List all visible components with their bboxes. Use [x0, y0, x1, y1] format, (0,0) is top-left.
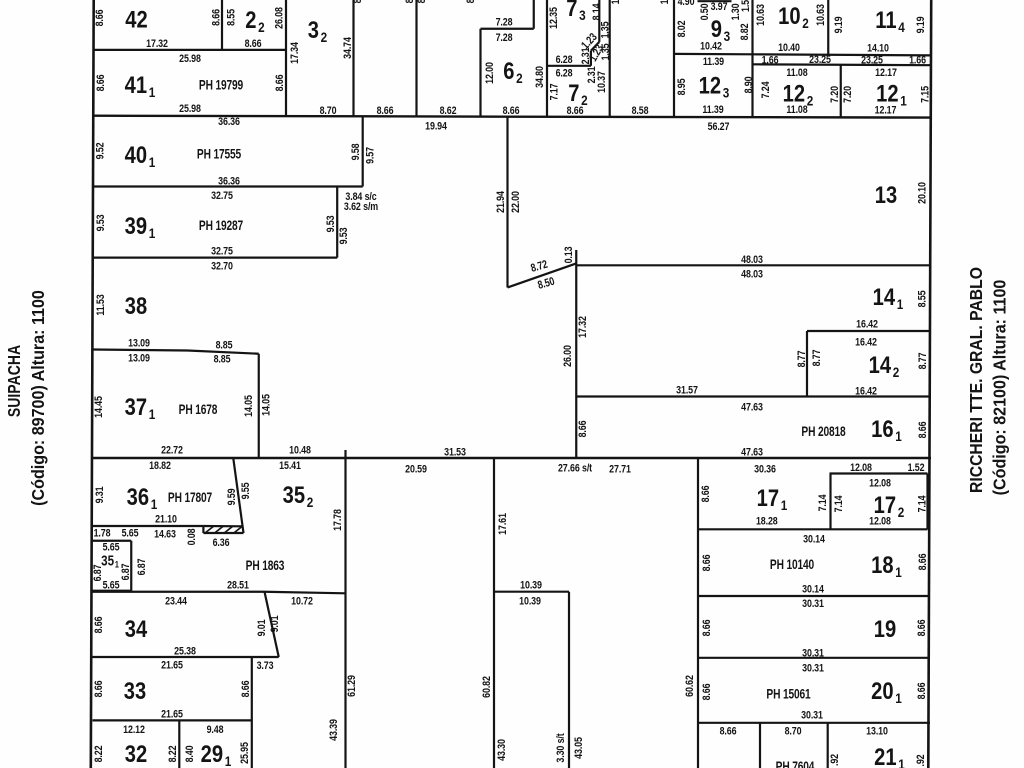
svg-text:56.27: 56.27	[708, 121, 730, 133]
svg-text:38: 38	[125, 292, 147, 319]
svg-text:1.35: 1.35	[599, 21, 611, 38]
svg-text:7.15: 7.15	[919, 86, 931, 103]
svg-text:9.53: 9.53	[338, 227, 350, 244]
svg-text:(Código: 89700) Altura: 1100: (Código: 89700) Altura: 1100	[28, 290, 48, 506]
svg-text:8.66: 8.66	[377, 105, 394, 117]
svg-text:0.13: 0.13	[563, 246, 575, 263]
svg-text:3.30 s/t: 3.30 s/t	[555, 733, 567, 763]
svg-text:21.65: 21.65	[161, 660, 183, 672]
svg-text:12.35: 12.35	[548, 7, 560, 29]
svg-text:8.66: 8.66	[917, 553, 929, 570]
svg-text:22.72: 22.72	[161, 445, 183, 457]
svg-text:8.66: 8.66	[274, 74, 286, 91]
wire: 7.28 notch horizontal	[481, 28, 534, 30]
svg-text:4.90: 4.90	[678, 0, 695, 8]
svg-text:20.10: 20.10	[916, 182, 928, 204]
svg-text:0.08: 0.08	[186, 528, 198, 545]
svg-text:PH 20818: PH 20818	[801, 424, 846, 440]
wire: lot 37 right edge	[258, 354, 260, 458]
svg-text:8.66: 8.66	[240, 680, 252, 697]
svg-text:8.90: 8.90	[743, 76, 755, 93]
svg-text:7.14: 7.14	[817, 494, 829, 511]
svg-text:10.72: 10.72	[291, 596, 313, 608]
svg-text:6.87: 6.87	[120, 563, 132, 580]
svg-text:8.66: 8.66	[503, 105, 520, 117]
svg-text:8.22: 8.22	[167, 745, 179, 762]
svg-text:9.01: 9.01	[256, 619, 268, 636]
svg-text:14.05: 14.05	[260, 394, 272, 416]
wire: bottom of PH1863 left part	[93, 591, 265, 593]
svg-text:60.82: 60.82	[481, 676, 493, 698]
wire: bottom of lot 36	[93, 525, 204, 527]
svg-text:1.40: 1.40	[610, 0, 622, 4]
svg-text:10.42: 10.42	[700, 41, 722, 53]
svg-text:7.17: 7.17	[548, 83, 560, 100]
wire: lot 21 divider x760	[759, 723, 761, 768]
svg-text:8.66: 8.66	[577, 420, 589, 437]
svg-text:17.61: 17.61	[497, 513, 509, 535]
svg-text:30.31: 30.31	[802, 598, 824, 610]
wire: lot 17-2 box right	[926, 474, 928, 530]
svg-text:9.01: 9.01	[269, 615, 281, 632]
wire: lot 35-1 right	[130, 541, 132, 591]
wire: lot 9-3 left edge	[673, 0, 675, 117]
svg-text:60.62: 60.62	[684, 675, 696, 697]
svg-text:26.00: 26.00	[562, 345, 574, 367]
svg-text:14.05: 14.05	[243, 395, 255, 417]
svg-text:25.95: 25.95	[239, 742, 251, 764]
svg-text:6.87: 6.87	[136, 558, 148, 575]
svg-text:13.09: 13.09	[128, 353, 150, 365]
svg-text:1.40: 1.40	[659, 0, 671, 4]
wire: bottom of 20 row	[698, 722, 930, 724]
svg-text:14.63: 14.63	[154, 529, 176, 541]
svg-text:30.31: 30.31	[802, 648, 824, 660]
wire: main divider y116	[93, 116, 932, 118]
svg-text:43.30: 43.30	[496, 739, 508, 761]
wire: vertical x576 (17.32/26.00)	[575, 265, 577, 458]
svg-text:12.17: 12.17	[875, 67, 897, 79]
svg-text:32.75: 32.75	[211, 190, 233, 202]
svg-text:9.55: 9.55	[240, 482, 252, 499]
svg-text:8.66: 8.66	[567, 105, 584, 117]
svg-text:18.82: 18.82	[149, 460, 171, 472]
svg-text:12.08: 12.08	[869, 516, 891, 528]
svg-text:PH 1678: PH 1678	[179, 402, 218, 418]
svg-text:47.63: 47.63	[741, 402, 763, 414]
svg-text:14.10: 14.10	[867, 43, 889, 55]
svg-text:7.28: 7.28	[496, 32, 513, 44]
svg-text:16.42: 16.42	[855, 337, 877, 349]
svg-text:RICCHERI TTE. GRAL. PABLO: RICCHERI TTE. GRAL. PABLO	[966, 267, 986, 493]
wire: bottom of lot 38 seg 8.85	[188, 351, 259, 354]
svg-text:8.66: 8.66	[700, 485, 712, 502]
wire: lot 12-1 left edge	[840, 65, 842, 118]
svg-text:5.65: 5.65	[103, 580, 120, 592]
wire: top of lot 16-1 (31.57/16.42)	[576, 395, 931, 397]
wire: lot 17-2 box left	[829, 474, 831, 530]
svg-text:21.10: 21.10	[155, 514, 177, 526]
svg-text:8.66: 8.66	[701, 683, 713, 700]
svg-text:17.32: 17.32	[577, 316, 589, 338]
svg-text:9.53: 9.53	[325, 215, 337, 232]
svg-text:12.08: 12.08	[869, 478, 891, 490]
svg-text:11.53: 11.53	[95, 294, 107, 316]
wire: lot 39 right edge	[336, 187, 338, 258]
svg-text:8.66: 8.66	[94, 9, 106, 26]
svg-text:8.66: 8.66	[701, 619, 713, 636]
svg-text:8.55: 8.55	[225, 9, 237, 26]
svg-text:12.17: 12.17	[875, 105, 897, 117]
svg-text:8.77: 8.77	[796, 350, 808, 367]
wire: long vertical x494	[493, 458, 495, 768]
wire: diagonal 8.50/8.72	[508, 263, 577, 287]
svg-text:14.45: 14.45	[93, 396, 105, 418]
svg-text:7.28: 7.28	[496, 17, 513, 29]
svg-text:7.14: 7.14	[916, 495, 928, 512]
svg-text:8.66: 8.66	[352, 0, 364, 3]
wire: lot 35-1 bottom	[93, 590, 132, 592]
svg-text:16.42: 16.42	[856, 319, 878, 331]
svg-text:27.71: 27.71	[609, 464, 631, 476]
svg-text:47.63: 47.63	[741, 447, 763, 459]
svg-text:9.48: 9.48	[207, 724, 224, 736]
svg-text:8.66: 8.66	[720, 726, 737, 738]
svg-text:31.57: 31.57	[676, 385, 698, 397]
wire: lot 7-3 right edge	[598, 0, 600, 42]
svg-text:8.66: 8.66	[245, 38, 262, 50]
svg-text:10.63: 10.63	[815, 4, 827, 26]
wire: boundary SUIPACHA street line	[91, 0, 94, 768]
svg-text:17.78: 17.78	[332, 509, 344, 531]
wire: lot 21 divider x827	[827, 723, 829, 768]
wire: lot 6-2 right edge	[546, 0, 548, 117]
svg-text:11.39: 11.39	[702, 104, 724, 116]
wire: tall lot left edge x609	[609, 0, 611, 117]
svg-text:7.20: 7.20	[829, 86, 841, 103]
svg-text:9.31: 9.31	[94, 486, 106, 503]
svg-text:8.85: 8.85	[216, 340, 233, 352]
svg-text:8.22: 8.22	[93, 745, 105, 762]
svg-text:27.66 s/t: 27.66 s/t	[558, 463, 593, 475]
svg-text:PH 19287: PH 19287	[199, 218, 244, 234]
wire: lot 35-1 top	[93, 540, 132, 542]
svg-text:34: 34	[125, 615, 148, 642]
svg-text:32: 32	[125, 740, 147, 767]
svg-text:6.28: 6.28	[556, 54, 573, 66]
svg-text:9.59: 9.59	[226, 488, 238, 505]
wire: main divider y458	[93, 457, 932, 459]
svg-text:9.19: 9.19	[915, 16, 927, 33]
svg-text:1.78: 1.78	[94, 528, 111, 540]
svg-text:PH 15061: PH 15061	[766, 686, 811, 702]
svg-text:11.08: 11.08	[786, 67, 808, 79]
wire: notch at top of 9-3	[698, 0, 732, 2]
svg-text:8.55: 8.55	[916, 290, 928, 307]
svg-text:30.14: 30.14	[802, 584, 824, 596]
wire: bottom of lot 39	[93, 257, 338, 259]
wire: bottom of lot 9-3	[674, 53, 753, 56]
wire: column divider x416	[415, 0, 417, 116]
wire: top of lot 17-2 box	[830, 472, 928, 474]
svg-text:1.66: 1.66	[762, 55, 779, 67]
svg-text:11.08: 11.08	[786, 104, 808, 116]
svg-text:3.97: 3.97	[711, 1, 728, 13]
svg-text:10.37: 10.37	[596, 71, 608, 93]
svg-text:12.00: 12.00	[484, 62, 496, 84]
wire: lot 3-2 right edge	[352, 0, 354, 116]
svg-text:32.70: 32.70	[211, 261, 233, 273]
wire: bottom of lot 34	[93, 656, 279, 658]
svg-text:36.36: 36.36	[218, 116, 240, 128]
svg-text:8.14: 8.14	[591, 3, 603, 20]
svg-text:36.36: 36.36	[218, 176, 240, 188]
svg-text:43.39: 43.39	[328, 719, 340, 741]
wire: lot 36 slanted right edge	[233, 458, 243, 533]
svg-text:30.31: 30.31	[802, 663, 824, 675]
svg-text:9.52: 9.52	[94, 142, 106, 159]
svg-text:25.98: 25.98	[179, 103, 201, 115]
svg-text:5.65: 5.65	[122, 528, 139, 540]
wire: tick above x345	[344, 450, 346, 458]
svg-text:34.74: 34.74	[342, 37, 354, 59]
svg-text:8.66: 8.66	[701, 554, 713, 571]
svg-text:10.39: 10.39	[519, 596, 541, 608]
svg-text:21.65: 21.65	[161, 709, 183, 721]
svg-text:32.75: 32.75	[211, 246, 233, 258]
svg-text:8.66: 8.66	[465, 0, 477, 3]
svg-text:PH 10140: PH 10140	[770, 557, 815, 573]
wire: lot 42 right edge	[221, 0, 223, 50]
svg-text:8.70: 8.70	[320, 105, 337, 117]
wire: 10.39 line	[494, 591, 569, 593]
svg-text:10.63: 10.63	[755, 4, 767, 26]
svg-text:21.94: 21.94	[495, 191, 507, 213]
svg-text:8.70: 8.70	[785, 726, 802, 738]
svg-text:19: 19	[874, 615, 896, 642]
svg-text:11.39: 11.39	[703, 56, 725, 68]
svg-text:18.28: 18.28	[756, 516, 778, 528]
wire: 16.42 top of lot 14-2	[807, 330, 931, 332]
wire: lot 2-2 right edge	[285, 0, 287, 116]
svg-text:43.05: 43.05	[573, 737, 585, 759]
wire: bottom of PH1863 right part 10.72	[265, 592, 346, 594]
svg-text:8.02: 8.02	[676, 20, 688, 37]
svg-text:17.32: 17.32	[146, 38, 168, 50]
svg-text:PH 7604: PH 7604	[776, 759, 815, 768]
svg-text:9.57: 9.57	[364, 147, 376, 164]
wire: bottom of lot 40	[93, 185, 363, 187]
svg-text:SUIPACHA: SUIPACHA	[4, 345, 24, 418]
wire: lot 9-3 right edge	[751, 0, 753, 117]
svg-text:31.53: 31.53	[444, 447, 466, 459]
svg-text:61.29: 61.29	[346, 675, 358, 697]
svg-text:8.66: 8.66	[210, 9, 222, 26]
svg-text:8.40: 8.40	[184, 745, 196, 762]
svg-text:30.31: 30.31	[801, 710, 823, 722]
wire: sliver bottom	[203, 532, 243, 534]
svg-text:PH 19799: PH 19799	[199, 77, 244, 93]
wire: lot 33/29-1 right edge	[251, 657, 253, 768]
wire: bottom of 17 row	[698, 528, 928, 530]
wire: bottom of 19 row	[698, 657, 930, 659]
svg-text:8.62: 8.62	[440, 105, 457, 117]
svg-text:13.09: 13.09	[128, 338, 150, 350]
wire: 48.03 bottom of lot 13	[576, 264, 931, 266]
svg-text:8.66: 8.66	[916, 682, 928, 699]
svg-text:34.80: 34.80	[534, 66, 546, 88]
svg-text:48.03: 48.03	[741, 269, 763, 281]
wire: long vertical x345	[344, 458, 346, 768]
svg-text:17.34: 17.34	[289, 42, 301, 64]
wire: bottom of 18 row	[698, 595, 930, 597]
svg-text:.92: .92	[829, 754, 841, 766]
wire: bottom of lot 38 seg 13.09	[93, 350, 188, 351]
svg-text:9.58: 9.58	[350, 143, 362, 160]
svg-text:.92: .92	[915, 754, 927, 766]
svg-text:0.50: 0.50	[699, 3, 711, 20]
svg-text:PH 1863: PH 1863	[246, 558, 285, 574]
wire: top of lots 12-2 / 12-1	[753, 63, 932, 66]
svg-text:13: 13	[875, 181, 897, 208]
svg-text:42: 42	[125, 6, 147, 33]
svg-text:8.66: 8.66	[93, 680, 105, 697]
svg-text:13.10: 13.10	[866, 726, 888, 738]
svg-text:8.66: 8.66	[916, 619, 928, 636]
svg-text:26.08: 26.08	[273, 7, 285, 29]
wire: lot 7-2 right edge	[590, 51, 592, 66]
svg-text:10.48: 10.48	[289, 445, 311, 457]
svg-text:8.95: 8.95	[676, 78, 688, 95]
wire: lot 13 left edge	[506, 116, 508, 288]
wire: lot 11-4 left edge	[827, 0, 829, 55]
svg-text:20.59: 20.59	[405, 464, 427, 476]
svg-text:1.66: 1.66	[909, 55, 926, 67]
svg-text:9.53: 9.53	[95, 214, 107, 231]
wire: 0.13 tick	[575, 250, 577, 265]
wire: long vertical x698	[697, 458, 699, 768]
wire: bottom of lots 42 / 2-2	[93, 49, 287, 51]
svg-text:28.51: 28.51	[227, 580, 249, 592]
wire: bottom of lots 10-2 / 11-4	[753, 54, 932, 55]
svg-text:23.44: 23.44	[165, 596, 187, 608]
wire: lot 6-2 left edge	[479, 29, 481, 117]
svg-text:9.19: 9.19	[833, 16, 845, 33]
wire: bottom of lot 33	[93, 719, 252, 721]
svg-text:6.28: 6.28	[556, 68, 573, 80]
svg-text:7.24: 7.24	[760, 81, 772, 98]
svg-text:12.12: 12.12	[123, 724, 145, 736]
wire: lot 40 right edge	[362, 116, 364, 187]
svg-text:1.5: 1.5	[740, 0, 752, 12]
wire: lot 32/29-1 divider	[178, 720, 180, 768]
svg-text:8.58: 8.58	[632, 105, 649, 117]
wire: boundary RICCHERI street line	[928, 0, 931, 768]
svg-text:8.66: 8.66	[416, 0, 428, 3]
svg-text:PH 17555: PH 17555	[197, 146, 242, 162]
wire: lot 34 slanted right edge 9.01	[265, 592, 279, 657]
svg-text:8.66: 8.66	[404, 0, 416, 3]
svg-text:25.98: 25.98	[179, 53, 201, 65]
svg-text:8.66: 8.66	[917, 421, 929, 438]
svg-text:33: 33	[124, 677, 146, 704]
svg-text:30.36: 30.36	[754, 464, 776, 476]
wire: sliver left	[202, 526, 204, 533]
svg-text:25.38: 25.38	[174, 646, 196, 658]
wire: sliver top	[203, 525, 242, 527]
wire: lot 14-2 left edge	[806, 331, 808, 397]
svg-text:23.25: 23.25	[861, 55, 883, 67]
svg-text:3.62 s/m: 3.62 s/m	[344, 201, 378, 213]
svg-text:8.66: 8.66	[95, 74, 107, 91]
svg-text:22.00: 22.00	[510, 191, 522, 213]
svg-text:1.52: 1.52	[908, 462, 925, 474]
svg-text:8.77: 8.77	[811, 349, 823, 366]
svg-text:12.08: 12.08	[850, 462, 872, 474]
svg-text:6.87: 6.87	[92, 564, 104, 581]
svg-text:19.94: 19.94	[425, 120, 447, 132]
wire: 7.28 notch vertical	[533, 0, 535, 29]
svg-text:7.14: 7.14	[833, 495, 845, 512]
svg-text:8.66: 8.66	[93, 616, 105, 633]
svg-text:5.65: 5.65	[103, 542, 120, 554]
svg-text:7.20: 7.20	[842, 86, 854, 103]
wire: top of lot 7-2 (6.28)	[547, 65, 591, 67]
svg-text:10.40: 10.40	[778, 42, 800, 54]
svg-text:6.36: 6.36	[213, 537, 230, 549]
svg-text:10.39: 10.39	[520, 580, 542, 592]
svg-text:PH 17807: PH 17807	[168, 490, 213, 506]
svg-text:(Código: 82100) Altura: 1100: (Código: 82100) Altura: 1100	[990, 280, 1010, 496]
svg-text:30.14: 30.14	[803, 534, 825, 546]
svg-text:8.77: 8.77	[917, 352, 929, 369]
svg-text:48.03: 48.03	[741, 254, 763, 266]
svg-text:16.42: 16.42	[855, 386, 877, 398]
svg-text:23.25: 23.25	[809, 54, 831, 66]
svg-text:8.82: 8.82	[739, 23, 751, 40]
svg-text:15.41: 15.41	[279, 460, 301, 472]
wire: jag diagonal 1.23	[591, 42, 599, 51]
wire: vertical x569	[568, 592, 570, 768]
svg-text:8.85: 8.85	[214, 354, 231, 366]
svg-text:3.73: 3.73	[257, 660, 274, 672]
